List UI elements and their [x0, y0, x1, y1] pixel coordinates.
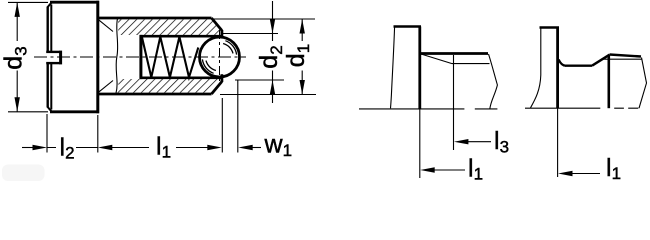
l2 left extension: [46, 114, 48, 153]
bore bottom edge: [140, 77, 221, 80]
l1 right extension: [221, 98, 223, 153]
plate top surface: [420, 52, 488, 55]
wall right edge: [556, 28, 559, 109]
wall top edge: [540, 26, 560, 28]
ball vertical centerline: [219, 30, 221, 84]
l1 arrow (middle): [420, 167, 435, 172]
ball reflection arcs upper right: [223, 44, 233, 54]
d3 dimension line: [16, 2, 18, 111]
bottom break line: [359, 108, 497, 110]
body end chamfer bottom: [212, 82, 222, 95]
plate lower edge line: [452, 63, 490, 65]
d2 dim line: [272, 1, 274, 103]
bore top edge: [140, 35, 221, 38]
wall left edge: [531, 28, 541, 108]
d2 bottom extension: [235, 79, 284, 81]
l2 leader left: [22, 147, 34, 149]
d3 arrow down: [15, 97, 20, 112]
body end face bottom: [220, 74, 223, 82]
l1 arrow (right fig): [558, 171, 573, 176]
l3 arrow: [454, 139, 469, 144]
l1 dim line: [110, 147, 210, 149]
wall top edge: [394, 25, 422, 27]
wall right edge: [418, 27, 421, 110]
slot bottom face: [59, 51, 62, 65]
centerline horizontal: [34, 56, 246, 58]
w1 right extension (ball apex): [237, 80, 239, 153]
head left outer face: [47, 7, 49, 108]
w1 arrow left: [238, 145, 253, 150]
head chamfer bottom: [48, 107, 52, 112]
l3 extension: [453, 55, 455, 150]
l1 dim line (right fig): [571, 173, 600, 175]
groove fillet at wall: [559, 60, 566, 66]
right break edge: [639, 58, 647, 109]
bore left face: [139, 35, 142, 79]
groove ramp up: [592, 55, 610, 66]
body outer bottom edge: [98, 93, 212, 96]
d2 top extension: [223, 33, 278, 35]
d1 bottom extension: [220, 94, 316, 96]
body end face top: [220, 30, 223, 38]
cone line top (head-body transition): [99, 20, 113, 32]
d1 dim line: [301, 19, 303, 95]
break line (wavy, section boundary): [116, 19, 118, 94]
ball reflection arcs lower left: [206, 61, 216, 71]
d1 arrow down (inside, bottom): [300, 80, 305, 95]
d3 top extension: [8, 1, 48, 3]
w1 leader: [251, 147, 261, 149]
wall left edge: [391, 27, 395, 109]
l1 dim line: [431, 169, 465, 171]
hatching lower wall: [117, 79, 221, 93]
l2 arrow right (outside): [33, 145, 48, 150]
head bottom edge: [50, 110, 99, 113]
l1 arrow right: [207, 145, 222, 150]
head left inner (chamfer ridge): [50, 5, 52, 110]
l2 dim segments: [47, 147, 98, 149]
l1 extension (right fig): [557, 108, 559, 177]
groove flat bottom: [565, 64, 592, 66]
d1 arrow up (inside, top): [300, 19, 305, 34]
d3 arrow up: [15, 2, 20, 17]
slot top edge: [46, 51, 59, 53]
head top edge: [50, 1, 99, 4]
l2/l1 arrow left at head face: [98, 145, 113, 150]
d1 top extension: [212, 18, 315, 20]
bottom break line: [525, 107, 638, 109]
top surface right of groove: [610, 55, 642, 57]
l2/l1 shared extension (head right face): [97, 115, 99, 153]
faint page artifact bottom-left: [2, 165, 45, 182]
plate right break edge: [489, 54, 498, 109]
l3 dim line: [465, 141, 491, 143]
head chamfer top: [48, 2, 52, 7]
slot bottom edge: [46, 62, 59, 64]
ball: [200, 37, 240, 77]
d2 arrow down (outside, top): [270, 19, 275, 34]
hatching upper wall: [117, 19, 221, 35]
d2 arrow up (outside, bottom): [270, 80, 275, 95]
body end chamfer top: [212, 18, 222, 31]
l1 extension: [419, 109, 421, 178]
chamfer ramp: [421, 54, 452, 64]
head right face: [96, 1, 99, 113]
body outer top edge: [98, 17, 212, 20]
cone line bottom: [99, 81, 113, 93]
d3 bottom extension: [8, 111, 48, 113]
groove edge vertical: [607, 55, 610, 108]
far groove edge (thin): [601, 58, 642, 60]
spring: [142, 37, 199, 78]
